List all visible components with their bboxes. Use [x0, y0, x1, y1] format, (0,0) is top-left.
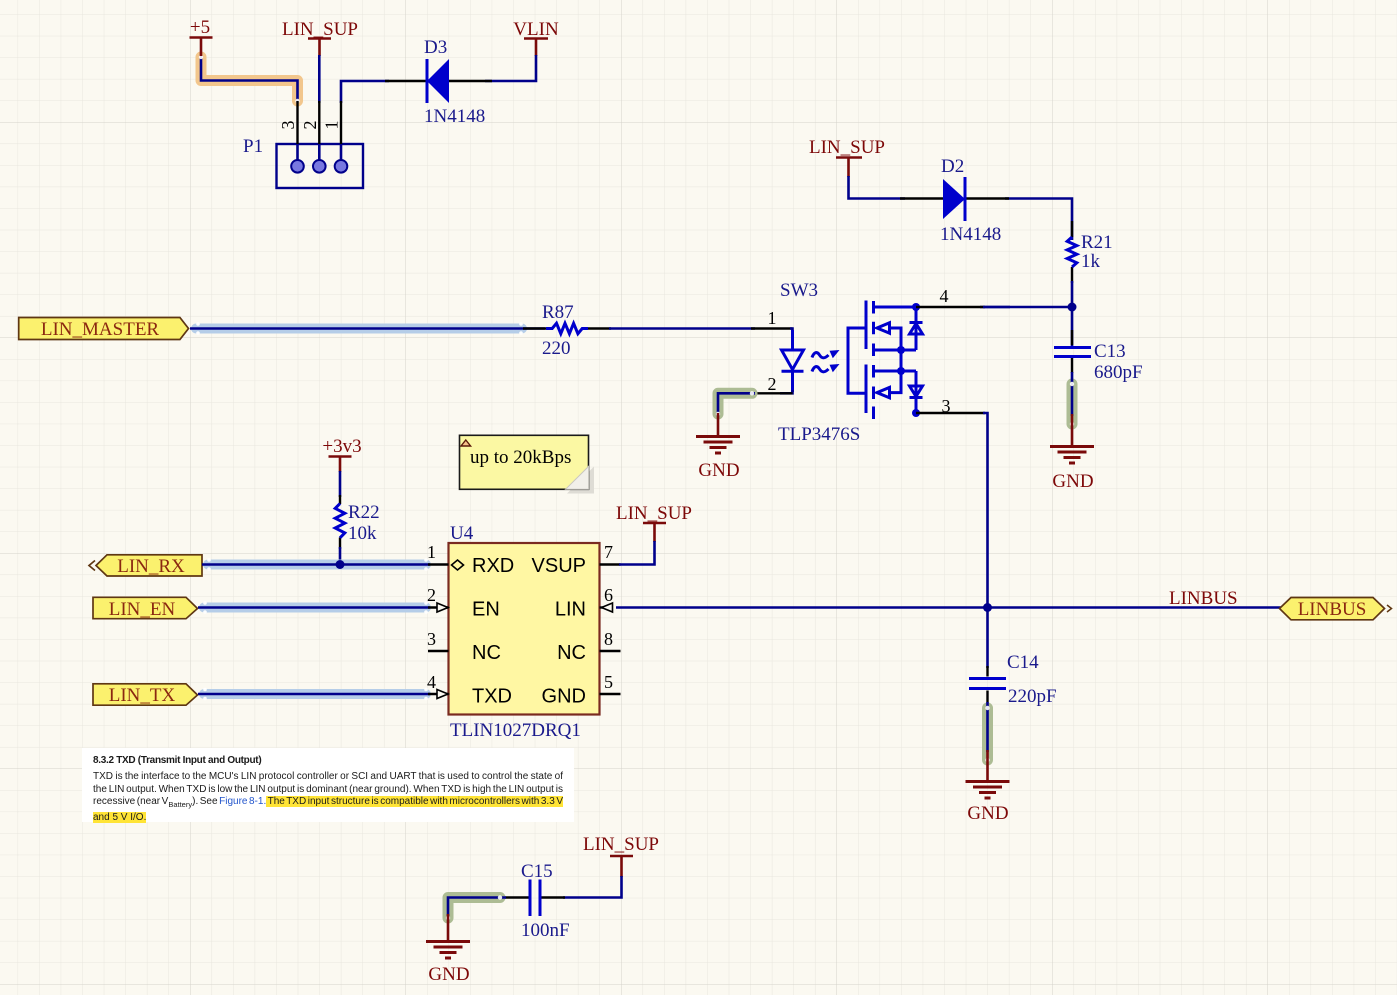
bottom MOSFET source	[874, 370, 917, 373]
power port LIN_SUP (mid)	[616, 503, 692, 542]
resistor R22 10k	[335, 495, 379, 549]
wire LIN_MASTER to R87 (blue highlighted)	[190, 322, 545, 335]
svg-text:10k: 10k	[348, 523, 377, 544]
ground GND (SW3)	[696, 413, 740, 481]
ground GND (C14)	[966, 750, 1010, 824]
svg-text:LIN_SUP: LIN_SUP	[583, 834, 659, 855]
power port +5	[190, 17, 213, 56]
svg-text:TLIN1027DRQ1: TLIN1027DRQ1	[450, 720, 581, 741]
svg-text:up to 20kBps: up to 20kBps	[470, 447, 571, 468]
svg-text:D2: D2	[941, 156, 964, 177]
junction node R22/LIN_RX	[336, 560, 345, 569]
port LIN_EN	[93, 597, 198, 620]
top MOSFET substrate arrow	[877, 323, 901, 350]
wire LIN net: U4 pin 6 to LINBUS port	[616, 606, 1281, 609]
note up to 20kBps	[460, 435, 595, 493]
power port LIN_SUP (top)	[282, 19, 358, 56]
svg-text:LIN_RX: LIN_RX	[117, 556, 185, 577]
svg-text:C15: C15	[521, 861, 553, 882]
svg-text:R22: R22	[348, 502, 380, 523]
svg-text:8: 8	[604, 629, 613, 649]
top MOSFET source	[874, 349, 917, 352]
power port VLIN	[513, 19, 559, 56]
wire SW3 pin 4 to node (navy part)	[983, 306, 1010, 309]
LED	[782, 330, 804, 392]
svg-text:220pF: 220pF	[1008, 686, 1057, 707]
wire +5 to P1 pin 3 (orange highlighted)	[199, 55, 300, 103]
svg-text:7: 7	[604, 542, 613, 562]
wire R21 to node	[1071, 281, 1074, 347]
svg-text:+5: +5	[190, 17, 210, 38]
wire +3v3 to R22	[339, 471, 342, 497]
diode D2 1N4148	[900, 156, 1009, 245]
wire LIN_TX to U4 pin 4 (blue highlighted)	[198, 688, 430, 701]
bottom MOSFET gate plate	[865, 365, 868, 414]
wire VLIN to D3 cathode	[485, 55, 536, 81]
diode D3 1N4148	[385, 37, 492, 127]
wire LIN_RX to U4 pin 1 (blue highlighted)	[202, 558, 430, 571]
IC U4 TLIN1027DRQ1	[427, 523, 621, 741]
junction dots bottom FET	[897, 367, 905, 375]
svg-text:R21: R21	[1081, 232, 1113, 253]
pin 2 EN	[428, 606, 449, 608]
bottom MOSFET channel dashes	[872, 365, 875, 419]
wire LIN_SUP to U4 pin 7	[619, 541, 655, 565]
power port LIN_SUP (right)	[809, 137, 885, 177]
svg-text:LIN_TX: LIN_TX	[109, 685, 176, 706]
svg-text:C13: C13	[1094, 341, 1126, 362]
pin 6 LIN	[600, 606, 614, 608]
wire LIN_SUP to P1 pin 2	[318, 55, 321, 103]
datasheet excerpt text block	[82, 748, 574, 822]
svg-text:2: 2	[427, 585, 436, 605]
svg-text:2: 2	[300, 121, 320, 130]
pin 5 GND	[600, 693, 621, 695]
svg-text:LIN_MASTER: LIN_MASTER	[41, 319, 160, 340]
svg-text:LIN_SUP: LIN_SUP	[282, 19, 358, 40]
bottom MOSFET substrate arrow	[877, 371, 901, 398]
svg-text:680pF: 680pF	[1094, 362, 1143, 383]
svg-text:LIN: LIN	[555, 599, 586, 621]
power port +3v3	[322, 436, 361, 472]
svg-text:1N4148: 1N4148	[424, 106, 485, 127]
wire C14 to GND (green highlighted)	[985, 702, 989, 762]
svg-text:1: 1	[322, 121, 342, 130]
svg-text:SW3: SW3	[780, 280, 818, 301]
pin 1	[751, 327, 793, 329]
svg-text:3: 3	[427, 629, 436, 649]
wire LIN_SUP to C15	[563, 876, 622, 898]
capacitor C14 220pF	[969, 608, 1057, 708]
pin 3	[916, 412, 985, 414]
svg-text:4: 4	[427, 672, 436, 692]
bottom body diode	[910, 371, 923, 413]
svg-text:1: 1	[427, 542, 436, 562]
svg-text:1: 1	[768, 308, 777, 328]
svg-text:R87: R87	[542, 302, 574, 323]
svg-text:GND: GND	[428, 964, 469, 985]
svg-text:GND: GND	[542, 686, 586, 708]
svg-text:LINBUS: LINBUS	[1298, 599, 1367, 620]
wire SW3 pin 2 to GND (green highlighted)	[716, 391, 755, 416]
wire D3 anode to P1 pin 1	[341, 81, 389, 103]
pin 2	[780, 390, 793, 393]
svg-text:100nF: 100nF	[521, 920, 570, 941]
port LINBUS	[1280, 598, 1392, 621]
svg-text:220: 220	[542, 338, 571, 359]
wire C15 to GND (green highlighted)	[446, 895, 506, 920]
svg-text:U4: U4	[450, 523, 474, 544]
svg-text:3: 3	[278, 121, 298, 130]
port LIN_TX	[93, 684, 198, 706]
junction dots top FET	[912, 303, 920, 311]
wire SW3 pin 3 to LINBUS node	[983, 413, 988, 610]
svg-text:RXD: RXD	[472, 555, 514, 577]
svg-text:TXD: TXD	[472, 686, 512, 708]
svg-text:2: 2	[768, 374, 777, 394]
svg-text:TLP3476S: TLP3476S	[778, 424, 860, 445]
svg-text:EN: EN	[472, 599, 500, 621]
svg-text:LINBUS: LINBUS	[1169, 588, 1238, 609]
svg-text:LIN_SUP: LIN_SUP	[809, 137, 885, 158]
svg-text:VLIN: VLIN	[513, 19, 559, 40]
top body diode	[910, 307, 923, 350]
svg-text:P1: P1	[243, 136, 263, 157]
pin 4	[916, 306, 985, 308]
ground GND (C15)	[426, 914, 470, 985]
wire LIN_EN to U4 pin 2 (blue highlighted)	[198, 601, 430, 614]
power port LIN_SUP (bottom)	[583, 834, 659, 877]
pin 4 TXD	[428, 693, 449, 695]
sources tie line	[900, 350, 903, 393]
svg-text:+3v3: +3v3	[322, 436, 361, 457]
svg-text:GND: GND	[967, 803, 1008, 824]
svg-text:NC: NC	[472, 642, 501, 664]
resistor R21 1k	[1067, 221, 1112, 283]
svg-text:6: 6	[604, 585, 613, 605]
pin 3 NC	[428, 650, 449, 652]
svg-text:GND: GND	[1052, 471, 1093, 492]
svg-text:5: 5	[604, 672, 613, 692]
junction node LINBUS/C14	[983, 603, 992, 612]
svg-text:3: 3	[942, 396, 951, 416]
svg-text:1k: 1k	[1081, 251, 1101, 272]
wire C13 to GND (green highlighted)	[1070, 372, 1074, 426]
svg-text:LIN_EN: LIN_EN	[109, 599, 176, 620]
svg-text:C14: C14	[1007, 652, 1039, 673]
pin 8 NC	[600, 650, 621, 652]
capacitor C15 100nF	[504, 861, 570, 941]
connector P1	[243, 101, 363, 188]
ground GND (C13)	[1050, 414, 1094, 492]
svg-text:1N4148: 1N4148	[940, 224, 1001, 245]
svg-text:LIN_SUP: LIN_SUP	[616, 503, 692, 524]
port LIN_RX	[89, 555, 202, 577]
gate bracket	[848, 328, 866, 393]
svg-text:NC: NC	[557, 642, 586, 664]
wire R87 to SW3 pin 1	[609, 327, 755, 330]
port LIN_MASTER	[19, 318, 189, 341]
junction node R21/C13/pin4	[1068, 303, 1077, 312]
svg-text:VSUP: VSUP	[532, 555, 586, 577]
pin 1 RXD	[428, 563, 449, 565]
top MOSFET gate plate	[865, 301, 868, 350]
wire R22 to LIN_RX net	[339, 547, 342, 565]
light arrows	[812, 353, 829, 358]
wire node to SW3 pin 4	[980, 306, 1072, 309]
resistor R87 220	[523, 302, 611, 359]
svg-text:GND: GND	[698, 460, 739, 481]
svg-text:4: 4	[940, 286, 949, 306]
top MOSFET drain	[874, 306, 917, 309]
svg-text:D3: D3	[424, 37, 447, 58]
wire LIN_SUP to D2 anode	[849, 176, 906, 199]
capacitor C13 680pF	[1054, 330, 1143, 383]
pin 7 VSUP	[600, 563, 621, 565]
wire D2 cathode to R21	[1005, 199, 1072, 241]
top MOSFET channel dashes	[872, 301, 875, 356]
optocoupler SW3 TLP3476S	[751, 280, 985, 445]
